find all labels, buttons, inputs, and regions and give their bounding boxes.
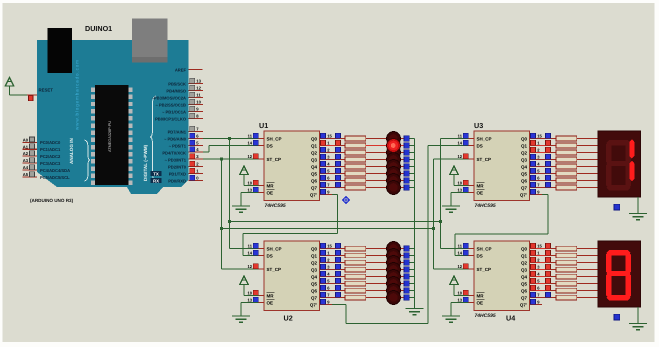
svg-text:Q4: Q4 (521, 274, 528, 279)
svg-text:Q4: Q4 (311, 164, 318, 169)
svg-text:Q6: Q6 (521, 178, 528, 183)
svg-text:PD0/RXD: PD0/RXD (168, 178, 186, 183)
svg-text:PB5/SCK: PB5/SCK (168, 81, 186, 86)
svg-text:ST_CP: ST_CP (477, 157, 492, 162)
svg-text:14: 14 (457, 251, 462, 256)
svg-text:Q2: Q2 (521, 260, 528, 265)
svg-text:DIGITAL (~PWM): DIGITAL (~PWM) (143, 144, 148, 181)
svg-text:Q3: Q3 (521, 267, 528, 272)
svg-text:MR: MR (477, 293, 485, 298)
svg-text:Q0: Q0 (521, 246, 528, 251)
svg-text:15: 15 (537, 244, 542, 249)
svg-text:PC4/ADC4/SDA: PC4/ADC4/SDA (40, 168, 70, 173)
svg-text:A5: A5 (23, 172, 29, 177)
svg-text:~ PB2/SS/OC1B: ~ PB2/SS/OC1B (155, 102, 186, 107)
svg-text:Q7: Q7 (311, 295, 318, 300)
svg-text:14: 14 (247, 141, 252, 146)
svg-text:Q4: Q4 (521, 164, 528, 169)
svg-text:OE: OE (477, 190, 484, 195)
svg-text:74HC595: 74HC595 (475, 203, 496, 209)
svg-text:MR: MR (267, 183, 275, 188)
svg-text:PC0/ADC0: PC0/ADC0 (40, 140, 61, 145)
svg-text:PB0/ICP1/CLKO: PB0/ICP1/CLKO (155, 116, 187, 121)
svg-text:RESET: RESET (39, 87, 54, 92)
svg-text:A3: A3 (23, 158, 29, 163)
svg-text:PC5/ADC5/SCL: PC5/ADC5/SCL (40, 175, 70, 180)
svg-text:MR: MR (267, 293, 275, 298)
svg-text:11: 11 (196, 93, 201, 98)
svg-text:RX: RX (153, 178, 159, 183)
svg-text:12: 12 (196, 86, 201, 91)
svg-text:U2: U2 (284, 314, 293, 323)
svg-text:Q7': Q7' (310, 192, 317, 197)
svg-text:A2: A2 (23, 151, 29, 156)
svg-text:Q0: Q0 (311, 136, 318, 141)
svg-text:PC2/ADC2: PC2/ADC2 (40, 154, 61, 159)
svg-text:DS: DS (477, 253, 483, 258)
svg-text:Q5: Q5 (311, 281, 318, 286)
svg-text:ATMEGA328P-PU: ATMEGA328P-PU (108, 121, 112, 152)
svg-text:11: 11 (248, 244, 253, 249)
svg-text:Q6: Q6 (311, 178, 318, 183)
svg-text:11: 11 (458, 244, 463, 249)
svg-text:~ PD6/AIN0: ~ PD6/AIN0 (164, 136, 187, 141)
svg-text:PD4/T0/XCK: PD4/T0/XCK (162, 150, 186, 155)
svg-text:PD7/AIN1: PD7/AIN1 (168, 129, 187, 134)
svg-text:Q6: Q6 (521, 288, 528, 293)
svg-text:Q7': Q7' (520, 192, 527, 197)
svg-text:14: 14 (247, 251, 252, 256)
svg-text:12: 12 (247, 154, 252, 159)
svg-text:11: 11 (248, 134, 253, 139)
svg-text:OE: OE (267, 300, 274, 305)
svg-text:Q0: Q0 (521, 136, 528, 141)
svg-text:AREF: AREF (175, 67, 187, 72)
svg-text:PD2/INT0: PD2/INT0 (168, 164, 187, 169)
svg-text:DUINO1: DUINO1 (85, 24, 112, 33)
svg-text:SH_CP: SH_CP (267, 246, 282, 251)
svg-text:Q2: Q2 (311, 150, 318, 155)
svg-text:Q5: Q5 (521, 281, 528, 286)
svg-text:A0: A0 (23, 138, 29, 143)
svg-text:SH_CP: SH_CP (267, 136, 282, 141)
svg-text:12: 12 (457, 264, 462, 269)
svg-text:Q1: Q1 (311, 253, 318, 258)
svg-text:U1: U1 (259, 121, 268, 130)
svg-text:Q3: Q3 (311, 267, 318, 272)
svg-text:Q1: Q1 (521, 253, 528, 258)
svg-text:13: 13 (196, 79, 201, 84)
svg-text:74HC595: 74HC595 (265, 203, 286, 209)
svg-text:Q5: Q5 (521, 171, 528, 176)
svg-text:A4: A4 (23, 165, 29, 170)
svg-text:OE: OE (477, 300, 484, 305)
svg-text:PC1/ADC1: PC1/ADC1 (40, 147, 61, 152)
svg-text:DS: DS (477, 143, 483, 148)
svg-text:ST_CP: ST_CP (477, 267, 492, 272)
svg-text:Q7': Q7' (520, 302, 527, 307)
svg-text:Q1: Q1 (521, 143, 528, 148)
svg-text:A1: A1 (23, 144, 29, 149)
svg-text:PC3/ADC3: PC3/ADC3 (40, 161, 61, 166)
svg-text:11: 11 (458, 134, 463, 139)
svg-text:TX: TX (153, 171, 159, 176)
svg-text:Q3: Q3 (521, 157, 528, 162)
svg-text:~ PB1/OC1A: ~ PB1/OC1A (162, 109, 186, 114)
svg-text:DS: DS (267, 253, 273, 258)
svg-text:Q2: Q2 (521, 150, 528, 155)
svg-text:ST_CP: ST_CP (267, 157, 282, 162)
svg-text:Q6: Q6 (311, 288, 318, 293)
svg-text:Q7: Q7 (311, 185, 318, 190)
svg-text:ST_CP: ST_CP (267, 267, 282, 272)
svg-text:15: 15 (537, 134, 542, 139)
svg-text:Q1: Q1 (311, 143, 318, 148)
svg-text:www.blogembarcado.com: www.blogembarcado.com (75, 60, 80, 130)
svg-text:(ARDUINO UNO R3): (ARDUINO UNO R3) (30, 198, 74, 203)
svg-text:U4: U4 (506, 314, 515, 323)
svg-text:Q2: Q2 (311, 260, 318, 265)
svg-text:Q5: Q5 (311, 171, 318, 176)
svg-text:10: 10 (196, 100, 201, 105)
svg-text:SH_CP: SH_CP (477, 246, 492, 251)
svg-text:PD1/TXD: PD1/TXD (169, 171, 186, 176)
svg-text:PB4/MISO: PB4/MISO (166, 88, 186, 93)
svg-text:DS: DS (267, 143, 273, 148)
svg-text:Q3: Q3 (311, 157, 318, 162)
svg-text:14: 14 (457, 141, 462, 146)
svg-text:Q0: Q0 (311, 246, 318, 251)
svg-text:OE: OE (267, 190, 274, 195)
svg-text:Q4: Q4 (311, 274, 318, 279)
svg-text:SH_CP: SH_CP (477, 136, 492, 141)
svg-text:Q7: Q7 (521, 185, 528, 190)
svg-text:Q7: Q7 (521, 295, 528, 300)
svg-text:15: 15 (327, 134, 332, 139)
svg-text:74HC595: 74HC595 (475, 313, 496, 319)
svg-text:~PB3/MOSI/OC2A: ~PB3/MOSI/OC2A (152, 95, 187, 100)
svg-text:U3: U3 (474, 121, 483, 130)
svg-text:MR: MR (477, 183, 485, 188)
svg-text:15: 15 (327, 244, 332, 249)
svg-text:~ PD3/INT1: ~ PD3/INT1 (164, 157, 186, 162)
svg-text:ANALOG IN: ANALOG IN (69, 138, 74, 164)
svg-text:~ PD5/T1: ~ PD5/T1 (169, 143, 187, 148)
svg-text:Q7': Q7' (310, 302, 317, 307)
svg-text:12: 12 (457, 154, 462, 159)
svg-text:12: 12 (247, 264, 252, 269)
